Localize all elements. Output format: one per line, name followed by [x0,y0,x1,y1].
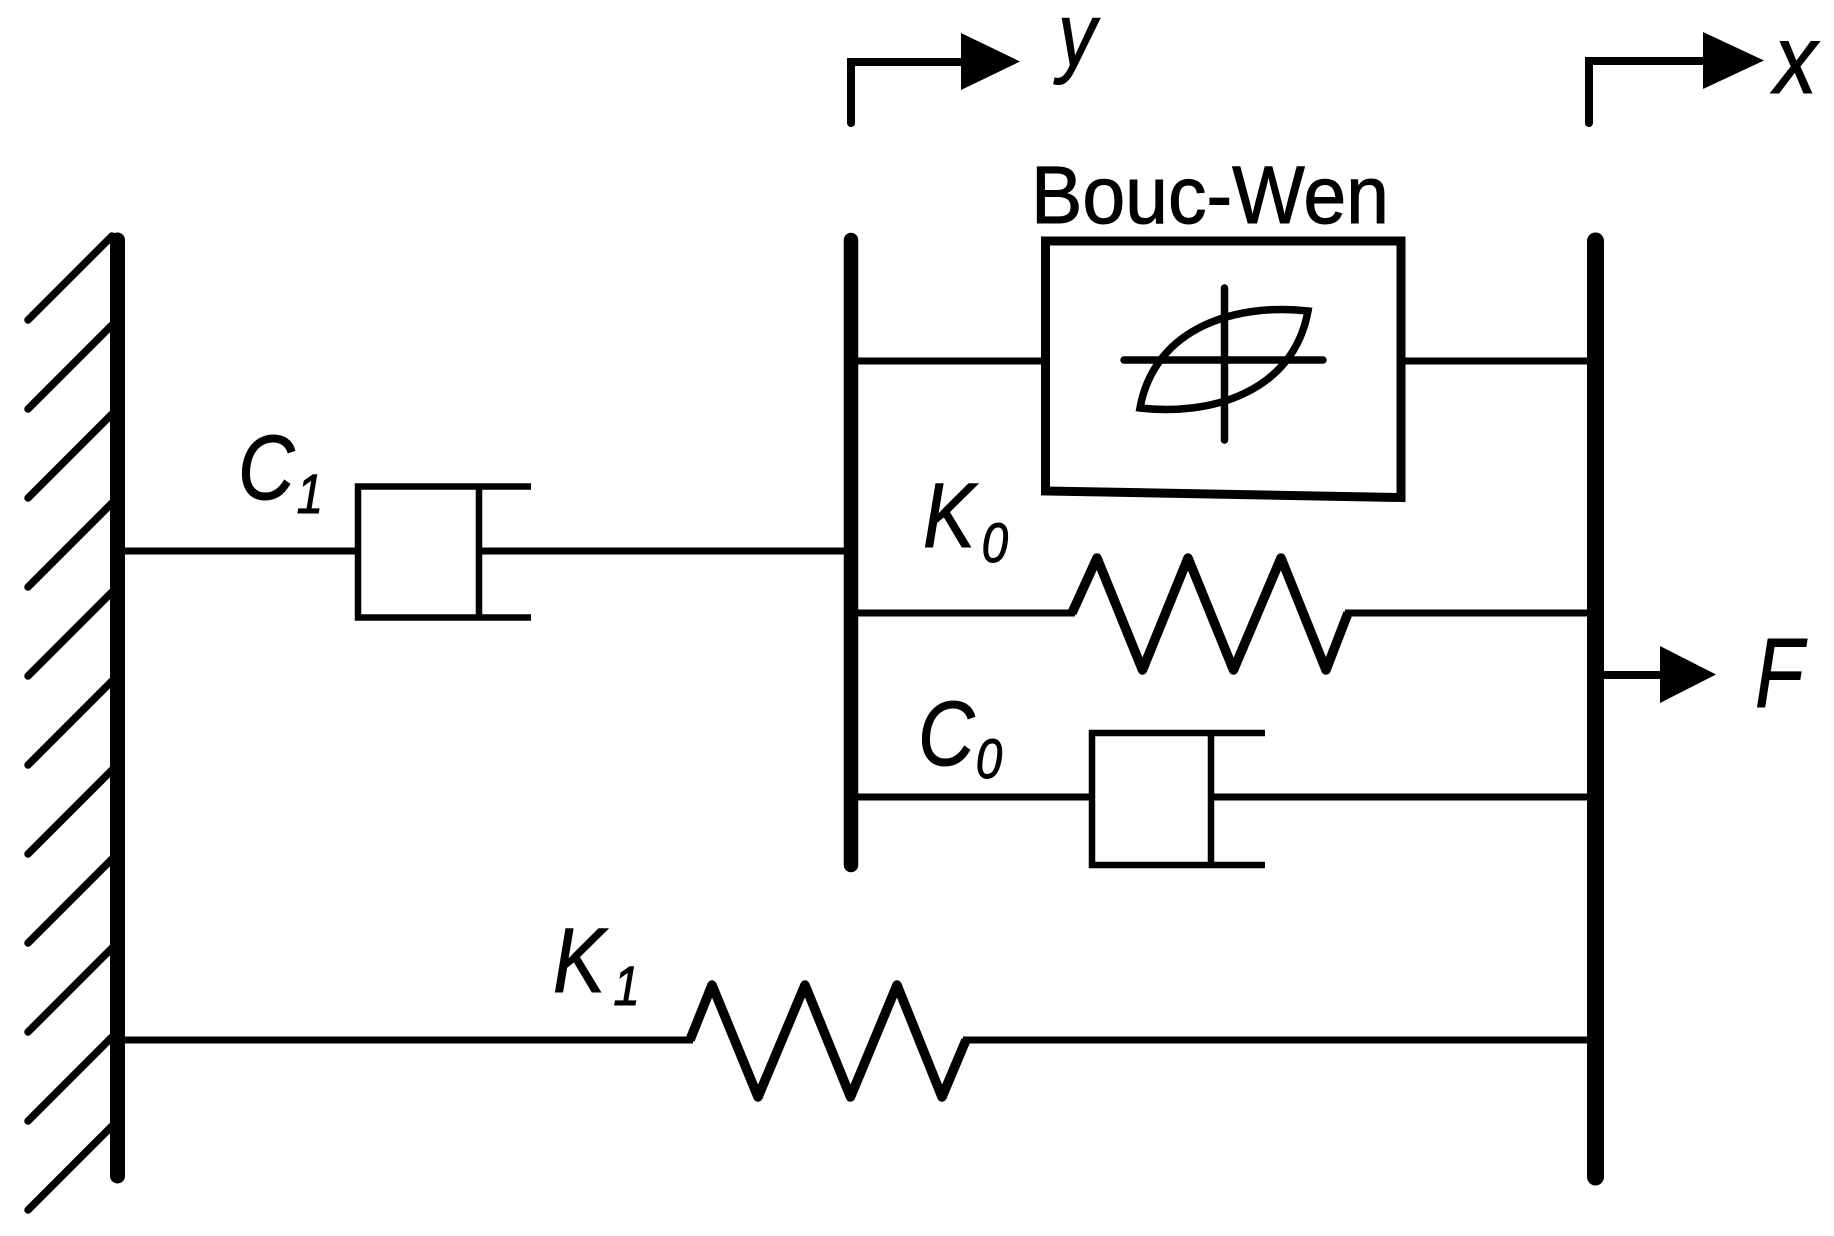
label C1 [238,417,323,526]
x-axis arrow [1589,32,1764,123]
svg-text:F: F [1755,618,1808,728]
svg-text:x: x [1770,6,1820,114]
svg-text:0: 0 [982,512,1009,574]
damper C0 [856,733,1589,865]
middle bar (node y plate) [844,240,859,865]
Bouc-Wen box [1046,241,1402,498]
wire: middle bar to spring K0 [856,610,1075,617]
hysteresis vertical axis [1221,288,1229,440]
label K0 [923,465,1008,575]
left wall hatching [28,236,112,1210]
wire: wall to spring K1 [122,1037,693,1044]
right bar (node x plate) [1587,241,1604,1177]
damper C0 cylinder [1092,733,1265,865]
damper C1 piston [476,487,483,618]
force F arrow [1602,646,1716,703]
spring K1 [690,985,966,1097]
svg-text:K: K [553,910,609,1012]
hysteresis loop [1140,309,1308,409]
wire: damper C1 to middle bar [479,548,848,555]
svg-text:K: K [923,465,979,567]
wire: Bouc-Wen box to right bar [1403,358,1589,365]
svg-text:C: C [238,417,296,519]
spring K0 [1072,558,1348,670]
wire: wall to damper C1 [122,548,358,555]
y-axis arrow [851,33,1020,123]
hysteresis horizontal axis [1124,356,1323,364]
svg-text:1: 1 [297,463,323,525]
svg-text:Bouc-Wen: Bouc-Wen [1031,150,1389,241]
damper C1 cylinder [358,487,531,618]
wire: spring K1 to right bar [963,1037,1589,1044]
svg-text:C: C [918,683,976,785]
wire: middle bar to Bouc-Wen box [856,358,1043,365]
svg-text:y: y [1053,0,1100,85]
damper C0 piston [1208,733,1215,865]
svg-text:1: 1 [613,955,639,1017]
svg-text:0: 0 [976,728,1003,790]
label K1 [553,910,640,1018]
damper C1 [122,487,848,618]
wire: middle bar to damper C0 [856,794,1092,801]
wire: damper C0 to right bar [1211,794,1589,801]
wire: spring K0 to right bar [1345,610,1589,617]
label C0 [918,683,1002,791]
left wall bar [110,240,125,1176]
